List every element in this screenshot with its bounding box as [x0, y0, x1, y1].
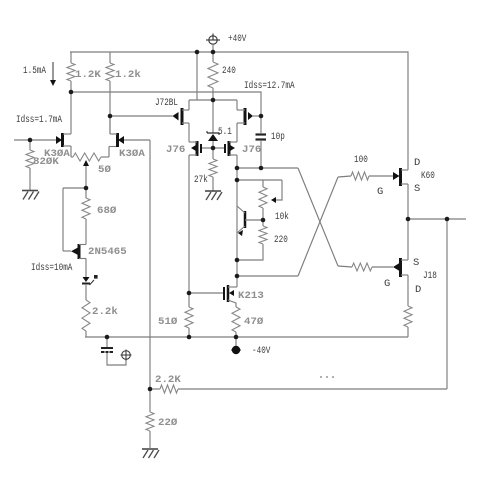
svg-text:D: D	[414, 157, 420, 169]
svg-text:240: 240	[222, 65, 236, 77]
svg-text:100: 100	[354, 154, 368, 166]
svg-text:22Ø: 22Ø	[158, 417, 177, 429]
svg-text:10p: 10p	[271, 131, 285, 143]
svg-text:K3ØA: K3ØA	[119, 148, 145, 160]
svg-text:K60: K60	[421, 170, 435, 182]
svg-text:Idss=1.7mA: Idss=1.7mA	[16, 114, 63, 126]
svg-text:J18: J18	[423, 270, 437, 282]
svg-text:1.2K: 1.2K	[75, 70, 101, 81]
svg-text:1.5mA: 1.5mA	[23, 65, 47, 77]
svg-text:J76: J76	[242, 145, 261, 156]
svg-text:2N5465: 2N5465	[88, 247, 127, 258]
svg-text:Idss=10mA: Idss=10mA	[31, 262, 73, 274]
svg-text:5.1: 5.1	[218, 126, 232, 138]
svg-text:G: G	[384, 278, 390, 290]
svg-text:2.2K: 2.2K	[155, 375, 181, 386]
svg-text:1.2k: 1.2k	[115, 69, 141, 81]
svg-text:+40V: +40V	[228, 33, 247, 45]
svg-text:D: D	[415, 284, 421, 296]
svg-text:220: 220	[274, 234, 288, 246]
svg-text:-40V: -40V	[252, 345, 271, 357]
svg-text:10k: 10k	[275, 211, 289, 223]
svg-text:5Ø: 5Ø	[98, 164, 111, 176]
svg-text:K213: K213	[238, 291, 264, 302]
svg-text:47Ø: 47Ø	[244, 316, 263, 328]
svg-text:2.2k: 2.2k	[92, 306, 118, 318]
svg-text:S: S	[413, 257, 419, 269]
svg-text:G: G	[377, 186, 383, 198]
svg-text:J76: J76	[166, 145, 185, 156]
svg-text:S: S	[414, 183, 420, 195]
svg-text:82ØK: 82ØK	[33, 156, 59, 168]
svg-text:51Ø: 51Ø	[158, 316, 177, 328]
svg-text:Idss=12.7mA: Idss=12.7mA	[244, 80, 295, 92]
svg-text:J72BL: J72BL	[155, 97, 178, 109]
svg-text:68Ø: 68Ø	[97, 205, 116, 217]
svg-text:27k: 27k	[194, 174, 208, 186]
